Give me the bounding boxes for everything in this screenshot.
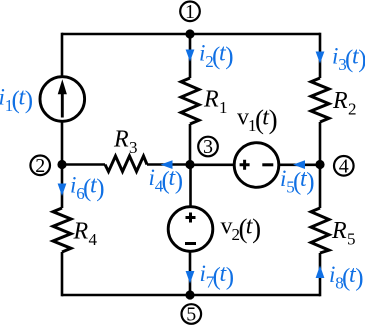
current arrow i6 xyxy=(58,184,67,197)
wire middle lower (v2 to node5) xyxy=(189,252,192,295)
svg-text:R2: R2 xyxy=(332,88,357,119)
wire left bottom (R4 to bottom rail) xyxy=(61,252,64,296)
svg-text:i5(t): i5(t) xyxy=(280,166,315,197)
current arrow i3 xyxy=(316,52,325,64)
wire node3 to v1 xyxy=(190,164,234,167)
node 2 label xyxy=(30,155,50,177)
svg-text:4: 4 xyxy=(339,155,349,177)
wire left lower (node2 to R4) xyxy=(61,165,64,209)
wire node2 to R3 xyxy=(62,163,105,166)
svg-text:R5: R5 xyxy=(331,218,356,249)
svg-text:2: 2 xyxy=(35,155,45,177)
current arrow i7 xyxy=(186,271,195,284)
svg-text:R1: R1 xyxy=(203,87,228,118)
svg-text:1: 1 xyxy=(185,1,195,23)
resistor R4 xyxy=(53,208,71,252)
svg-text:i7(t): i7(t) xyxy=(200,261,235,292)
junction node 1 xyxy=(185,29,194,38)
svg-text:R3: R3 xyxy=(113,127,138,158)
svg-text:3: 3 xyxy=(203,136,213,158)
node 1 label xyxy=(180,1,200,23)
node 3 label xyxy=(198,136,218,158)
svg-text:i6(t): i6(t) xyxy=(70,173,105,204)
wire middle upper (node1 to R1) xyxy=(189,34,192,78)
wire right (R2 to node4) xyxy=(319,122,322,165)
svg-text:v2(t): v2(t) xyxy=(221,214,262,245)
svg-text:5: 5 xyxy=(186,304,196,326)
svg-text:i2(t): i2(t) xyxy=(199,41,234,72)
voltage source v1 xyxy=(234,143,279,188)
wire bottom rail node5 xyxy=(62,294,320,297)
svg-text:i1(t): i1(t) xyxy=(0,85,33,116)
resistor R2 xyxy=(311,78,329,122)
wire right upper (node1 to R2) xyxy=(319,33,322,78)
svg-text:i4(t): i4(t) xyxy=(149,165,184,196)
junction node 4 xyxy=(315,160,324,169)
svg-text:v1(t): v1(t) xyxy=(237,105,278,136)
resistor R5 xyxy=(311,208,329,253)
wire right bottom (R5 to bottom rail) xyxy=(319,253,322,296)
current arrow i2 xyxy=(186,50,195,62)
node 5 label xyxy=(182,304,202,326)
wire right lower (node4 to R5) xyxy=(319,165,322,209)
resistor R1 xyxy=(181,78,199,124)
svg-text:i8(t): i8(t) xyxy=(329,262,364,293)
node 4 label xyxy=(334,155,354,177)
svg-text:R4: R4 xyxy=(73,219,98,250)
wire left upper (node1 to i1 source) xyxy=(61,33,64,76)
wire left (i1 source to node2) xyxy=(61,122,64,165)
voltage source v2 xyxy=(168,207,213,252)
wire middle (node3 to v2) xyxy=(189,165,192,207)
current source i1 xyxy=(40,77,85,122)
current arrow i4 xyxy=(161,160,173,169)
current arrow i8 xyxy=(316,266,325,279)
wire v1 to node4 xyxy=(279,164,320,167)
resistor R3 xyxy=(105,156,147,172)
junction node 3 xyxy=(185,160,194,169)
wire middle (R1 to node3) xyxy=(189,124,192,165)
junction node 2 xyxy=(57,160,66,169)
svg-text:i3(t): i3(t) xyxy=(332,44,365,75)
wire R3 to node3 xyxy=(147,163,190,166)
junction node 5 xyxy=(185,290,194,299)
wire top rail node1 xyxy=(62,33,320,36)
current arrow i5 xyxy=(293,160,305,169)
